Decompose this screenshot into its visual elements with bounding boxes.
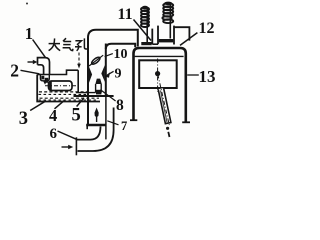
svg-text:3: 3 xyxy=(19,109,28,129)
svg-text:1: 1 xyxy=(25,24,33,43)
svg-text:13: 13 xyxy=(199,67,216,86)
svg-text:7: 7 xyxy=(121,119,127,133)
svg-text:4: 4 xyxy=(49,106,57,125)
svg-text:10: 10 xyxy=(114,47,128,62)
svg-text:8: 8 xyxy=(116,97,124,114)
svg-text:5: 5 xyxy=(72,106,81,126)
svg-text:11: 11 xyxy=(118,6,133,23)
svg-text:12: 12 xyxy=(199,20,215,37)
svg-text:6: 6 xyxy=(50,126,58,142)
svg-text:9: 9 xyxy=(115,67,122,82)
svg-text:2: 2 xyxy=(10,61,19,81)
